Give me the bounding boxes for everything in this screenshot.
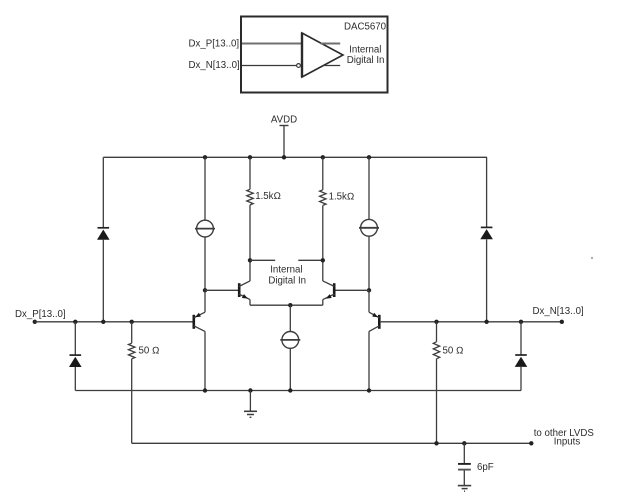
svg-text:Dx_N[13..0]: Dx_N[13..0] <box>533 306 584 317</box>
current source I3 (tail) <box>280 332 300 349</box>
AVDD terminal tick <box>280 125 289 127</box>
node D3 tap <box>73 320 77 324</box>
svg-text:Inputs: Inputs <box>554 437 581 448</box>
node R3 tap <box>130 320 134 324</box>
node A (I1/Q1 base/Q3 emitter) <box>203 288 207 292</box>
wire join to I3 <box>289 305 291 331</box>
svg-text:1.5kΩ: 1.5kΩ <box>255 191 281 202</box>
inversion bubble <box>297 64 301 68</box>
label R3 value 50 ohm <box>139 346 160 357</box>
wire D3 to bottom rail <box>74 367 76 391</box>
svg-text:Internal: Internal <box>349 45 381 56</box>
wire Q3 emitter to node A <box>204 290 206 312</box>
node D4 tap <box>519 320 523 324</box>
wire D1 to Dx_P line <box>102 240 104 322</box>
node stub right <box>321 258 325 262</box>
wire to other LVDS inputs <box>132 442 532 444</box>
diode D3 (lower left) <box>69 355 82 367</box>
wire Q3 collector to bottom rail <box>204 331 206 390</box>
svg-text:Digital In: Digital In <box>268 275 306 286</box>
wire Dx_P to D3 <box>74 322 76 355</box>
label R4 value 50 ohm <box>443 346 464 357</box>
node rail-I2 <box>367 155 371 159</box>
label Internal Digital In (box) <box>347 45 385 67</box>
node D2 tap <box>484 320 488 324</box>
svg-text:Dx_P[13..0]: Dx_P[13..0] <box>189 38 240 49</box>
wire emitter join <box>250 304 323 306</box>
svg-text:AVDD: AVDD <box>271 115 297 126</box>
node B (I2/Q2 base/Q4 emitter) <box>367 288 371 292</box>
capacitor C1 6pF <box>458 464 471 470</box>
wire rail to I2 <box>368 157 370 219</box>
wire C1 to ground <box>463 470 465 485</box>
wire Q1 base <box>205 289 238 291</box>
DAC5670 box <box>241 17 388 93</box>
wire buffer output bottom <box>323 65 340 67</box>
label Dx_N[13..0] (top) <box>189 60 240 71</box>
wire internal stub right <box>298 259 323 261</box>
svg-text:Digital In: Digital In <box>347 55 385 66</box>
wire lower line to C1 <box>463 443 465 463</box>
current source I1 <box>195 220 215 237</box>
transistor Q3 (outer left PNP) <box>194 312 205 331</box>
node C1 tap <box>462 441 466 445</box>
svg-text:6pF: 6pF <box>477 462 494 473</box>
node R4 tap <box>434 320 438 324</box>
wire I1 to node A <box>204 237 206 290</box>
wire Dx_P input line <box>35 321 193 323</box>
label Dx_P[13..0] (input) <box>15 309 66 320</box>
wire left rail drop to D1 <box>102 157 104 227</box>
wire top rail <box>103 156 487 158</box>
diode D4 (lower right) <box>515 355 528 367</box>
terminal Dx_N <box>560 320 564 324</box>
label R1 value 1.5kΩ <box>255 191 281 202</box>
label Dx_P[13..0] (top) <box>189 38 240 49</box>
wire D4 to bottom rail <box>520 367 522 391</box>
wire Dx_N to D4 <box>520 322 522 355</box>
node rail-AVDD <box>282 155 286 159</box>
wire Q4 collector to bottom rail <box>368 331 370 390</box>
node emitter join <box>288 303 292 307</box>
node rail-Q3 <box>203 388 207 392</box>
node rail-ground <box>248 388 252 392</box>
wire I3 to bottom rail <box>289 348 291 390</box>
label R2 value 1.5kΩ <box>329 191 355 202</box>
resistor R1 1.5k <box>247 157 253 281</box>
wire I2 to node B <box>368 236 370 290</box>
svg-text:Dx_N[13..0]: Dx_N[13..0] <box>189 60 240 71</box>
buffer U1 <box>302 33 343 78</box>
svg-text:Internal: Internal <box>270 265 302 276</box>
svg-text:Dx_P[13..0]: Dx_P[13..0] <box>15 309 66 320</box>
wire Dx_N input to buffer <box>242 65 297 67</box>
wire Q4 emitter to node B <box>368 290 370 312</box>
label to other LVDS Inputs <box>534 428 595 448</box>
current source I2 <box>359 219 379 236</box>
node rail-R1 <box>248 155 252 159</box>
diode D2 (upper right) <box>480 227 493 239</box>
label AVDD <box>271 115 297 126</box>
label Internal Digital In (schematic) <box>268 265 306 287</box>
label DAC5670 <box>344 22 387 33</box>
terminal to other LVDS <box>529 441 533 445</box>
ground (bottom rail) <box>244 391 257 418</box>
ground (C1) <box>458 486 471 492</box>
wire buffer output top <box>321 43 341 45</box>
svg-text:DAC5670: DAC5670 <box>344 22 387 33</box>
transistor Q1 (inner left NPN) <box>239 281 250 305</box>
svg-text:50 Ω: 50 Ω <box>139 346 160 357</box>
node D1 tap <box>101 320 105 324</box>
wire internal stub left <box>250 259 275 261</box>
diode D1 (upper left) <box>97 228 110 240</box>
terminal Dx_P <box>33 320 37 324</box>
node stub left <box>248 258 252 262</box>
resistor R2 1.5k <box>320 157 326 281</box>
svg-text:50 Ω: 50 Ω <box>443 346 464 357</box>
wire Dx_N input line <box>381 321 562 323</box>
node rail-R2 <box>321 155 325 159</box>
transistor Q4 (outer right PNP) <box>369 312 379 331</box>
wire Q2 base <box>335 289 369 291</box>
stray speck <box>591 257 593 259</box>
resistor R3 50 ohm <box>129 322 135 444</box>
node rail-Q4 <box>367 388 371 392</box>
resistor R4 50 ohm <box>433 322 439 444</box>
wire AVDD drop <box>283 126 285 158</box>
label C1 value 6pF <box>477 462 494 473</box>
wire D2 to Dx_N line <box>486 239 488 321</box>
svg-text:1.5kΩ: 1.5kΩ <box>329 191 355 202</box>
node R4-lower wire <box>434 441 438 445</box>
wire Dx_P input to buffer <box>242 43 302 45</box>
transistor Q2 (inner right NPN) <box>323 281 335 305</box>
node rail-I1 <box>203 155 207 159</box>
wire rail to I1 <box>204 157 206 220</box>
label Dx_N[13..0] (input) <box>533 306 584 317</box>
wire bottom rail <box>75 390 521 392</box>
wire right rail drop to D2 <box>486 157 488 227</box>
node rail-I3 <box>288 388 292 392</box>
